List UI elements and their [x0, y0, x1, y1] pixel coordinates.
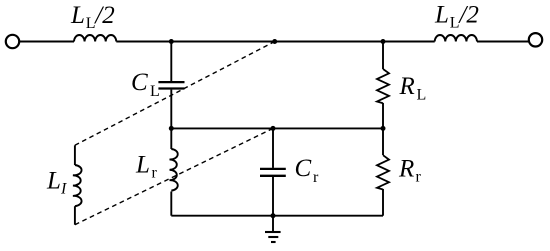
node at CL branch top: [169, 39, 174, 44]
terminal port right: [529, 33, 542, 46]
wire RL branch upper: [382, 42, 384, 70]
svg-text:r: r: [416, 169, 422, 186]
wire top middle: [116, 41, 434, 43]
label CL: [131, 69, 160, 100]
inductor LI: [73, 165, 82, 206]
wire Rr branch upper: [382, 128, 384, 155]
wire LI branch lower: [74, 206, 76, 225]
capacitor Cr: [260, 169, 286, 176]
svg-text:C: C: [295, 155, 312, 182]
wire top right: [477, 41, 529, 43]
label LL/2 right: [434, 2, 479, 32]
wire middle horizontal: [171, 127, 383, 129]
label LI: [46, 168, 67, 198]
ground: [265, 216, 281, 242]
wire CL branch lower: [170, 90, 172, 129]
wire RL branch lower: [382, 103, 384, 128]
wire Cr branch lower: [272, 177, 274, 216]
svg-text:L: L: [86, 15, 96, 32]
svg-text:L: L: [46, 168, 61, 195]
label Rr: [398, 156, 422, 186]
svg-text:C: C: [131, 69, 148, 96]
wire CL branch upper: [170, 42, 172, 82]
wire Lr branch upper: [170, 128, 172, 149]
label LL/2 left: [70, 2, 115, 32]
capacitor CL: [158, 82, 184, 88]
resistor RL: [377, 69, 389, 103]
svg-text:/2: /2: [457, 2, 478, 29]
node middle left: [169, 126, 174, 131]
terminal port left: [6, 35, 19, 48]
svg-text:L: L: [135, 152, 150, 179]
svg-text:L: L: [450, 15, 460, 32]
label Cr: [295, 155, 320, 186]
node middle right: [381, 126, 386, 131]
inductor LL/2 right: [435, 35, 477, 42]
wire bottom horizontal: [171, 215, 383, 217]
svg-text:L: L: [417, 87, 427, 104]
svg-text:L: L: [70, 2, 85, 29]
svg-text:I: I: [60, 181, 67, 198]
wire LI branch upper: [74, 145, 76, 165]
wire Lr branch lower: [170, 192, 172, 216]
svg-text:R: R: [398, 156, 414, 183]
node at LI dashed connection top: [272, 39, 277, 44]
node at RL top: [381, 39, 386, 44]
svg-text:L: L: [150, 83, 160, 100]
inductor LL/2 left: [74, 35, 116, 42]
svg-text:L: L: [434, 2, 449, 29]
dashed mapping line lower: [75, 128, 273, 224]
inductor Lr: [170, 149, 178, 191]
resistor Rr: [377, 155, 389, 189]
dashed mapping line upper: [75, 42, 275, 146]
label RL: [399, 73, 427, 104]
wire Rr branch lower: [382, 189, 384, 216]
wire top left: [19, 41, 74, 43]
svg-text:R: R: [399, 73, 415, 100]
wire Cr branch upper: [272, 128, 274, 168]
svg-text:r: r: [152, 165, 158, 182]
label Lr: [135, 152, 158, 182]
svg-text:r: r: [313, 169, 319, 186]
svg-text:/2: /2: [93, 2, 114, 29]
node ground junction: [271, 213, 276, 218]
node middle center: [271, 126, 276, 131]
